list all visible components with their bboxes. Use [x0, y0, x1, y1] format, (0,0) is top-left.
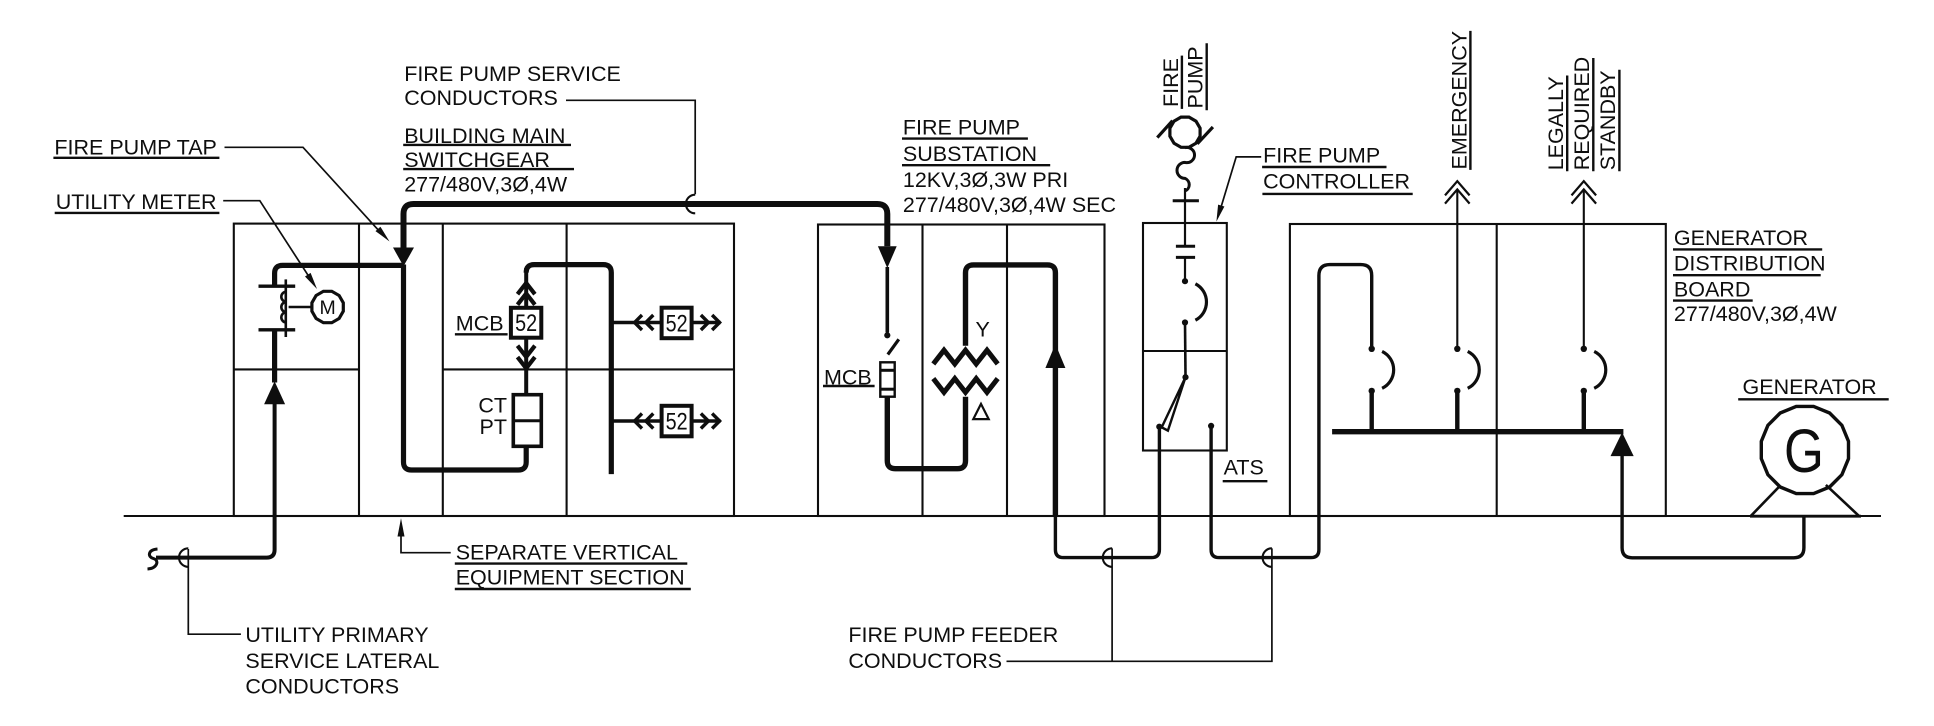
svg-text:MCB: MCB [456, 311, 504, 335]
svg-text:52: 52 [666, 408, 688, 435]
arrowhead: separate section (slim up) [398, 518, 405, 536]
leader: fire pump tap callout [225, 147, 381, 232]
wire: fp breaker stub to internal bus [1369, 393, 1373, 432]
underline: EMERGENCY [1469, 31, 1471, 170]
enclosure: substation divider x=1007 [1006, 225, 1008, 517]
wire: breaker to ATS pivot [1184, 323, 1187, 376]
chevron: MCB drawout upper pair (up) [518, 283, 535, 305]
chevron: lower feeder right pair [701, 414, 720, 429]
svg-text:52: 52 [515, 310, 537, 337]
arrow: fire pump feeder (solid, up) [1045, 344, 1065, 368]
underline: BOARD [1673, 299, 1753, 301]
wire: emergency branch riser [1456, 190, 1458, 346]
enclosure: substation divider x=922.5 [921, 225, 923, 517]
underline: FIRE PUMP substation [902, 137, 1028, 139]
breaker 52 feeder lower: device box [662, 406, 692, 437]
svg-text:CONDUCTORS: CONDUCTORS [404, 86, 558, 110]
svg-text:PT: PT [480, 415, 507, 439]
svg-text:ATS: ATS [1224, 455, 1264, 479]
svg-text:277/480V,3Ø,4W: 277/480V,3Ø,4W [1674, 302, 1838, 326]
svg-text:277/480V,3Ø,4W SEC: 277/480V,3Ø,4W SEC [903, 193, 1116, 217]
marker: cable hop on utility lateral [179, 548, 188, 567]
wire: lower feeder right stub [692, 419, 721, 423]
node: MCB switch hinge dot [884, 332, 890, 338]
chevron: MCB drawout lower pair (down) [518, 346, 535, 369]
underline: FIRE PUMP TAP [53, 157, 219, 159]
svg-text:FIRE PUMP SERVICE: FIRE PUMP SERVICE [404, 62, 621, 86]
underline: DISTRIBUTION [1673, 274, 1821, 276]
wire: MCB 52 upper stem [524, 268, 528, 308]
underline: MCB substation [823, 385, 875, 387]
breaker: controller circuit breaker arc [1195, 284, 1206, 320]
wire: fire pump service conductors run [404, 204, 888, 248]
underline: CONTROLLER [1262, 193, 1412, 195]
wire: tap to utility meter [275, 265, 404, 286]
fire pump motor: circle [1170, 117, 1200, 147]
svg-text:FIRE PUMP TAP: FIRE PUMP TAP [54, 136, 216, 160]
transformer T1: wye winding zigzag [933, 350, 997, 364]
chevron: upper feeder right pair [701, 315, 720, 330]
underline: SWITCHGEAR [403, 168, 574, 170]
underline: REQUIRED [1592, 58, 1594, 171]
utility meter: upper terminal bar [259, 285, 296, 288]
utility meter: M dial circle [312, 291, 343, 322]
svg-text:CONTROLLER: CONTROLLER [1263, 170, 1410, 194]
underline: ATS [1223, 480, 1268, 482]
node: ATS pivot dot [1182, 374, 1188, 380]
arrow: substation incoming (solid, down) [878, 246, 897, 268]
wire: MCB to transformer delta winding [887, 397, 965, 469]
contact: controller stab upper bar [1176, 245, 1195, 248]
fire pump motor: right impeller stroke [1197, 127, 1213, 144]
node: fp breaker lower dot [1369, 388, 1375, 394]
underline: MCB switchgear [455, 333, 508, 335]
svg-text:CT: CT [478, 393, 507, 417]
leader: controller callout [1221, 157, 1262, 209]
leader: separate section callout [401, 534, 451, 553]
node: emergency breaker upper dot [1454, 346, 1460, 352]
node: standby breaker upper dot [1581, 346, 1587, 352]
node: controller breaker upper dot [1182, 278, 1188, 284]
utility meter: potential coil turns [281, 292, 285, 323]
wire: meter line below to arrow [272, 330, 277, 383]
underline: SEPARATE VERTICAL [455, 562, 688, 564]
enclosure: switchgear section divider x=442.8 [442, 224, 444, 516]
wire: lower feeder tap [611, 419, 661, 423]
leader: utility lateral callout [188, 549, 241, 634]
enclosure: fire pump controller outline [1143, 223, 1227, 451]
wire: upper feeder tap [611, 321, 661, 325]
enclosure: controller divider [1143, 350, 1227, 352]
arrowhead: tap callout [376, 227, 390, 242]
svg-text:Y: Y [976, 317, 990, 341]
squiggle: utility lateral continuation [148, 549, 158, 569]
switch blade: ATS transfer blade [1162, 377, 1186, 430]
svg-text:CONDUCTORS: CONDUCTORS [245, 674, 399, 698]
wire: switchgear riser and bus [526, 265, 611, 475]
svg-text:FIRE PUMP: FIRE PUMP [1263, 144, 1380, 168]
svg-text:SEPARATE VERTICAL: SEPARATE VERTICAL [456, 541, 678, 565]
svg-text:SUBSTATION: SUBSTATION [903, 142, 1037, 166]
switch blade: substation MCB [888, 339, 899, 354]
wire: substation MCB drop [885, 267, 889, 333]
enclosure: board divider x=1496.7 [1496, 224, 1498, 516]
wire: standby breaker stub [1582, 393, 1586, 432]
wire: upper feeder right stub [692, 321, 721, 325]
marker: cable hop on emergency feeder [1263, 548, 1272, 567]
generator G1: base bar [1750, 515, 1861, 518]
breaker: emergency breaker arc [1468, 351, 1480, 388]
wire: utility service lateral run [156, 403, 275, 558]
underline: SUBSTATION [902, 164, 1050, 166]
enclosure: switchgear horizontal divider right cells [443, 368, 734, 370]
fuse: lower element bar [880, 388, 894, 391]
marker: cable hop on service conductors [686, 195, 695, 214]
enclosure: switchgear section divider x=359 [358, 224, 360, 516]
underline: UTILITY METER [55, 212, 220, 214]
svg-text:M: M [319, 297, 335, 319]
enclosure: building main switchgear outline [234, 224, 734, 516]
enclosure: generator distribution board outline [1290, 224, 1666, 516]
svg-text:GENERATOR: GENERATOR [1743, 375, 1877, 399]
wire: bottom equipment bus line [124, 515, 1881, 517]
wire: fire pump tap vertical to CT/PT [404, 265, 527, 471]
leader: utility meter callout [223, 201, 312, 282]
underline: FIRE [1181, 56, 1183, 109]
transformer T1: delta winding zigzag [933, 379, 997, 393]
wire: transformer secondary riser to feeder [966, 265, 1056, 517]
node: emergency breaker lower dot [1454, 388, 1460, 394]
svg-text:PUMP: PUMP [1184, 46, 1208, 108]
chevron: lower feeder left pair [635, 414, 654, 429]
generator G1: left mount leg [1751, 486, 1780, 516]
node: ATS emergency contact dot [1208, 423, 1214, 429]
underline: EQUIPMENT SECTION [455, 588, 691, 590]
svg-text:FIRE: FIRE [1159, 58, 1183, 107]
underline: LEGALLY [1566, 76, 1568, 172]
svg-text:UTILITY METER: UTILITY METER [56, 190, 217, 214]
wire: ATS emergency side to distribution board gooseneck [1211, 265, 1372, 558]
terminal: pump lead tick bar [1173, 199, 1199, 202]
underline: BUILDING MAIN [403, 144, 571, 146]
bus: board internal bus [1332, 429, 1623, 434]
fire pump motor: left impeller stroke [1157, 121, 1172, 138]
underline: GENERATOR board [1673, 248, 1822, 250]
chevron: upper feeder left pair [635, 315, 654, 330]
marker: cable hop on normal feeder [1103, 548, 1112, 567]
leader: feeder conductors callout [1007, 548, 1272, 661]
svg-text:UTILITY PRIMARY: UTILITY PRIMARY [245, 623, 428, 647]
wire: controller top lead [1184, 188, 1186, 246]
fuse: upper element bar [880, 369, 894, 372]
svg-text:277/480V,3Ø,4W: 277/480V,3Ø,4W [404, 173, 568, 197]
wire: standby branch riser [1583, 190, 1585, 346]
wire: fire pump feeder normal source to ATS [1055, 428, 1159, 558]
wire: emergency breaker stub [1455, 393, 1459, 432]
node: fp breaker upper dot [1369, 346, 1375, 352]
svg-text:STANDBY: STANDBY [1596, 70, 1620, 170]
generator G1: right mount leg [1826, 485, 1859, 516]
instrument CT/PT: mid divider [513, 419, 541, 422]
label: delta winding symbol [973, 404, 988, 419]
node: ATS normal contact dot [1156, 424, 1162, 430]
svg-text:CONDUCTORS: CONDUCTORS [848, 649, 1002, 673]
arrow: standby load (open chevrons up) [1572, 181, 1597, 203]
svg-text:LEGALLY: LEGALLY [1544, 76, 1568, 170]
utility meter: connector to M dial [289, 306, 312, 309]
arrowhead: controller callout [1216, 205, 1224, 222]
breaker 52 MCB: device box [511, 308, 541, 338]
svg-text:52: 52 [666, 310, 688, 337]
underline: STANDBY [1618, 70, 1620, 172]
wire: MCB 52 lower stem [524, 338, 528, 395]
arrow: utility service (solid, up) [264, 381, 285, 404]
svg-text:12KV,3Ø,3W PRI: 12KV,3Ø,3W PRI [903, 168, 1068, 192]
utility meter: lower terminal bar [259, 328, 296, 331]
svg-text:FIRE PUMP: FIRE PUMP [903, 115, 1020, 139]
breaker: fp breaker arc [1382, 351, 1394, 388]
svg-text:REQUIRED: REQUIRED [1570, 57, 1594, 170]
leader: service conductors callout [566, 100, 695, 194]
wire: stab to breaker [1184, 257, 1186, 279]
underline: GENERATOR machine [1738, 398, 1889, 400]
svg-text:EQUIPMENT SECTION: EQUIPMENT SECTION [456, 566, 685, 590]
wire: flexible lead squiggle to pump [1177, 147, 1195, 191]
breaker: standby breaker arc [1594, 351, 1606, 388]
utility meter: potential coil lead [284, 279, 287, 337]
enclosure: switchgear horizontal divider left cell [234, 368, 359, 370]
arrow: generator supply (solid, up) [1611, 432, 1634, 456]
wire: generator run below bus [1622, 455, 1804, 558]
node: standby breaker lower dot [1581, 388, 1587, 394]
arrow: emergency load (open chevrons up) [1445, 181, 1470, 203]
svg-text:FIRE PUMP FEEDER: FIRE PUMP FEEDER [848, 623, 1058, 647]
underline: PUMP [1205, 43, 1207, 110]
generator G1: circle [1761, 406, 1848, 493]
breaker 52 feeder upper: device box [662, 308, 692, 339]
svg-text:G: G [1784, 417, 1824, 485]
contact: controller stab lower bar [1176, 256, 1195, 259]
enclosure: fire pump substation outline [818, 225, 1105, 517]
arrowhead: utility meter callout [305, 273, 317, 289]
arrow: fire pump tap (solid, down) [393, 248, 414, 267]
enclosure: switchgear section divider x=566.6 [566, 224, 568, 516]
svg-text:GENERATOR: GENERATOR [1674, 226, 1808, 250]
svg-text:SERVICE LATERAL: SERVICE LATERAL [245, 649, 439, 673]
svg-text:DISTRIBUTION: DISTRIBUTION [1674, 252, 1826, 276]
svg-text:BOARD: BOARD [1674, 277, 1750, 301]
node: controller breaker lower dot [1182, 319, 1188, 325]
svg-text:EMERGENCY: EMERGENCY [1447, 31, 1471, 170]
underline: FIRE PUMP controller [1262, 166, 1386, 168]
instrument CT/PT: compartment box [513, 395, 541, 447]
fuse: substation MCB body [880, 362, 894, 396]
